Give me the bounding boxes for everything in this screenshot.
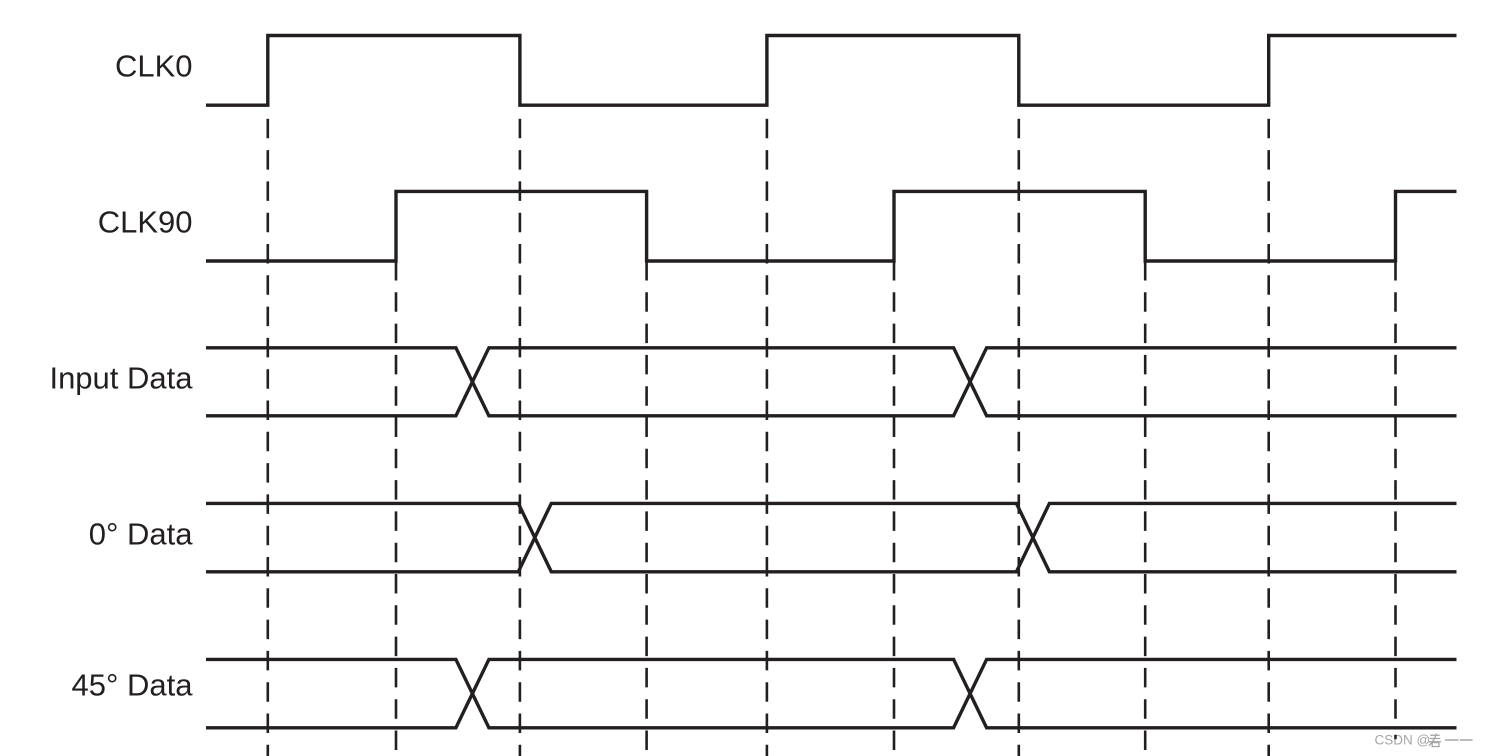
svg-text:CSDN @: CSDN @ [1375,732,1431,747]
svg-text:CLK0: CLK0 [115,49,193,84]
svg-text:0° Data: 0° Data [89,517,193,552]
svg-text:CLK90: CLK90 [98,205,193,240]
svg-text:45° Data: 45° Data [72,667,194,702]
svg-text:Input Data: Input Data [49,361,193,396]
